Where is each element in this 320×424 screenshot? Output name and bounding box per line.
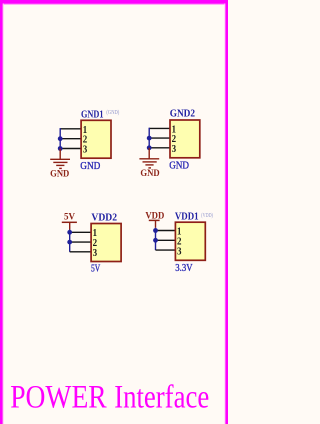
svg-text:GND: GND <box>50 169 70 179</box>
svg-text:GND2: GND2 <box>170 108 195 119</box>
svg-text:VDD1: VDD1 <box>175 211 199 222</box>
svg-text:Interface: Interface <box>114 379 209 415</box>
svg-text:3: 3 <box>172 144 177 155</box>
svg-text:GND: GND <box>169 161 189 172</box>
svg-text:5V: 5V <box>91 263 101 274</box>
svg-text:VDD: VDD <box>145 210 164 220</box>
svg-text:3: 3 <box>83 144 88 155</box>
svg-text:5V: 5V <box>64 212 75 222</box>
svg-text:GND1: GND1 <box>81 109 104 120</box>
svg-text:(VDD): (VDD) <box>201 212 213 219</box>
svg-text:GND: GND <box>140 168 160 178</box>
svg-text:POWER: POWER <box>10 379 107 415</box>
svg-text:(GND): (GND) <box>106 109 119 116</box>
svg-text:VDD2: VDD2 <box>91 213 117 224</box>
svg-text:3.3V: 3.3V <box>175 263 193 274</box>
svg-text:3: 3 <box>93 248 98 259</box>
svg-text:3: 3 <box>177 246 182 257</box>
svg-text:GND: GND <box>80 161 100 172</box>
